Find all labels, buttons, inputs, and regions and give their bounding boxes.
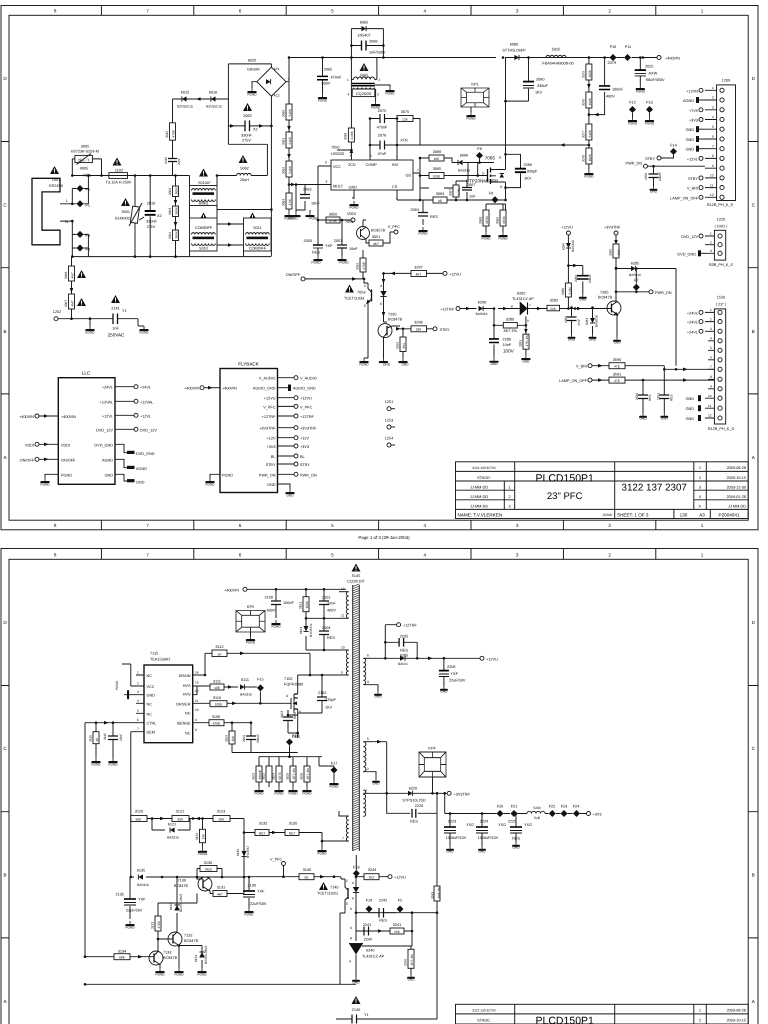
resistor 3106 470E: [193, 715, 234, 731]
svg-text:47E: 47E: [614, 365, 620, 369]
svg-text:22nF: 22nF: [177, 158, 181, 165]
svg-text:GND: GND: [639, 417, 647, 421]
FLYBACK right pins: [253, 376, 317, 489]
ground PGND row: [254, 787, 263, 792]
svg-text:3282: 3282: [550, 299, 558, 303]
svg-text:A: A: [752, 455, 756, 460]
svg-text:22uF/50V: 22uF/50V: [449, 679, 466, 683]
svg-text:2051: 2051: [334, 239, 342, 243]
svg-text:2224: 2224: [480, 820, 488, 824]
svg-text:1: 1: [347, 78, 349, 82]
svg-text:3590: 3590: [613, 358, 621, 362]
sheet1 outer border: [1, 6, 758, 530]
svg-text:BC847B: BC847B: [163, 956, 178, 960]
svg-text:JJ MM-DD: JJ MM-DD: [728, 505, 746, 509]
svg-text:AC2: AC2: [274, 94, 280, 98]
svg-text:EGND: EGND: [85, 331, 95, 335]
svg-text:NC: NC: [185, 732, 191, 736]
svg-text:1KV: 1KV: [325, 706, 333, 710]
svg-text:+12TRF: +12TRF: [300, 415, 315, 419]
svg-text:FQPF2N80: FQPF2N80: [284, 683, 303, 687]
svg-text:2: 2: [699, 1018, 701, 1022]
svg-text:RES: RES: [312, 251, 320, 255]
svg-text:NAME: T.V.VLERKEN: NAME: T.V.VLERKEN: [458, 513, 503, 518]
ground PGND 3068: [481, 232, 490, 237]
svg-text:PGND: PGND: [198, 852, 208, 856]
svg-text:470E: 470E: [362, 262, 366, 269]
svg-text:1: 1: [701, 523, 704, 528]
svg-text:5: 5: [137, 709, 139, 713]
svg-text:3109: 3109: [225, 735, 229, 742]
svg-text:1253: 1253: [385, 419, 393, 423]
wire sense rail: [259, 757, 322, 766]
svg-text:3051: 3051: [372, 235, 380, 239]
svg-text:GND: GND: [686, 397, 695, 401]
svg-text:PGND: PGND: [329, 785, 339, 789]
shunt ref 6240 TL431CZ-AP: [349, 931, 412, 977]
warning 3001: [121, 198, 130, 206]
svg-text:5062: 5062: [240, 167, 248, 171]
svg-text:3130: 3130: [204, 861, 212, 865]
wire K2 row: [356, 913, 412, 941]
fuse F3: [77, 231, 84, 238]
svg-text:PGND: PGND: [244, 913, 254, 917]
svg-text:RES: RES: [648, 394, 652, 401]
svg-text:ON/OFF: ON/OFF: [20, 458, 35, 462]
transformer 5010A RING: [190, 186, 218, 206]
svg-text:250VAC: 250VAC: [108, 333, 125, 338]
svg-text:VDDI: VDDI: [25, 443, 34, 447]
svg-text:BL: BL: [300, 455, 305, 459]
svg-text:G: G: [482, 172, 485, 176]
svg-text:2: 2: [508, 495, 510, 499]
ground PGND Y1: [139, 326, 148, 331]
connector 1200 B12B_PH_K_S: [705, 79, 736, 208]
resistor 3101: [299, 589, 310, 621]
svg-text:13: 13: [195, 681, 199, 685]
resistor 3062: [282, 161, 293, 177]
transistor 7051 BC857B: [345, 220, 386, 241]
svg-text:3120: 3120: [135, 810, 143, 814]
svg-text:6131: 6131: [194, 955, 198, 962]
svg-text:2104: 2104: [322, 626, 330, 630]
svg-text:3280: 3280: [561, 288, 565, 295]
svg-text:RES: RES: [400, 649, 408, 653]
svg-text:F22: F22: [549, 805, 556, 809]
svg-text:6111: 6111: [241, 678, 249, 682]
svg-text:3001: 3001: [122, 210, 130, 214]
svg-text:220pF: 220pF: [325, 698, 336, 702]
svg-text:2067: 2067: [467, 183, 475, 187]
warning 2140: [352, 996, 361, 1004]
svg-text:YXG: YXG: [466, 823, 474, 827]
svg-text:3: 3: [377, 93, 379, 97]
svg-text:3: 3: [516, 553, 519, 558]
svg-text:GND: GND: [374, 695, 382, 699]
svg-text:K: K: [350, 907, 353, 911]
svg-text:22uF/50V: 22uF/50V: [250, 902, 267, 906]
svg-text:82K: 82K: [178, 817, 185, 821]
resistor 3110 100E: [193, 696, 288, 707]
svg-text:F2: F2: [86, 188, 90, 192]
warning 7053: [345, 285, 354, 293]
wire 12vu node: [568, 248, 582, 283]
svg-text:3050: 3050: [329, 213, 337, 217]
svg-text:COMDIFF: COMDIFF: [195, 226, 213, 230]
svg-text:YXF: YXF: [325, 244, 333, 248]
svg-text:6: 6: [137, 718, 139, 722]
svg-text:1nF: 1nF: [469, 195, 476, 199]
FLYBACK left pin PGND: [210, 474, 220, 478]
svg-text:2003-10-15: 2003-10-15: [727, 476, 746, 480]
shunt ref 6282 TL431CZ AP: [498, 292, 544, 323]
svg-text:4M7: 4M7: [71, 272, 75, 278]
svg-text:V_PFC: V_PFC: [263, 405, 275, 409]
ground GND flyback: [285, 489, 294, 494]
LLC right pin +24VL: [115, 386, 134, 388]
svg-text:F21: F21: [511, 805, 518, 809]
svg-text:2: 2: [367, 767, 369, 771]
svg-text:5200: 5200: [533, 806, 540, 810]
svg-text:100nF: 100nF: [283, 601, 294, 605]
ground PGND 2065: [318, 94, 327, 99]
svg-text:3079: 3079: [581, 71, 585, 78]
capacitor 2068 1nF/500V: [351, 40, 386, 55]
resistor 3112 1K: [193, 645, 312, 676]
svg-text:GND: GND: [686, 417, 695, 421]
svg-text:4K7-1%: 4K7-1%: [504, 329, 518, 333]
svg-text:6066: 6066: [460, 154, 468, 158]
ground EGND: [85, 326, 94, 331]
resistor 3068: [479, 204, 506, 232]
resistor 3004: [168, 230, 179, 241]
wire feedback box bottom: [85, 983, 356, 985]
svg-text:59K: 59K: [136, 817, 143, 821]
svg-text:2109: 2109: [242, 735, 246, 742]
svg-text:360K: 360K: [175, 186, 179, 194]
fuse F1: [77, 200, 84, 207]
svg-text:8: 8: [54, 523, 57, 528]
resistor 3130 RES: [197, 861, 222, 877]
ground PGND xfmr pin3: [371, 101, 380, 106]
svg-text:GBU6K: GBU6K: [247, 68, 260, 72]
svg-text:3243: 3243: [431, 892, 435, 899]
svg-text:+12VU: +12VU: [561, 226, 573, 230]
svg-text:GND: GND: [661, 417, 669, 421]
svg-text:3078: 3078: [581, 155, 585, 162]
svg-text:D: D: [3, 76, 7, 81]
svg-text:1KV: 1KV: [524, 177, 532, 181]
svg-text:3122: 3122: [195, 833, 199, 840]
svg-text:2CD: 2CD: [348, 163, 356, 167]
svg-text:2100: 2100: [265, 596, 273, 600]
resistor 3050 470E: [318, 213, 351, 224]
resistor 3008: [64, 266, 75, 281]
svg-text:0E: 0E: [305, 876, 309, 880]
svg-text:2068: 2068: [369, 40, 377, 44]
svg-text:7: 7: [146, 9, 149, 14]
terminal +24VL pin3: [699, 329, 703, 333]
svg-text:6130: 6130: [236, 849, 240, 856]
resistor 3244 2K2: [356, 868, 388, 880]
svg-text:15K: 15K: [394, 930, 401, 934]
resistor 3002: [168, 186, 179, 197]
svg-text:+12VU: +12VU: [300, 397, 312, 401]
svg-text:STBY: STBY: [300, 463, 310, 467]
svg-text:13K: 13K: [202, 833, 206, 840]
svg-text:10E: 10E: [434, 157, 440, 161]
svg-text:3038: 3038: [344, 133, 348, 140]
svg-text:BC847B: BC847B: [598, 296, 613, 300]
svg-text:KP1: KP1: [471, 83, 478, 87]
ground PGND 3069: [498, 232, 507, 237]
svg-text:8: 8: [712, 154, 714, 158]
diode 6101 BYD33J: [299, 622, 313, 642]
svg-text:6020: 6020: [248, 59, 256, 63]
svg-text:GND: GND: [478, 850, 486, 854]
svg-text:PGND: PGND: [197, 973, 207, 977]
svg-text:+12VU: +12VU: [449, 272, 461, 276]
svg-text:BAS316: BAS316: [240, 692, 252, 696]
svg-text:2206: 2206: [447, 665, 455, 669]
svg-text:3140: 3140: [303, 868, 311, 872]
svg-text:6101: 6101: [299, 627, 303, 634]
svg-text:400V: 400V: [606, 95, 615, 99]
warning 2141: [111, 295, 120, 303]
svg-text:1: 1: [699, 466, 701, 470]
svg-text:CS: CS: [392, 185, 398, 189]
svg-text:A3: A3: [699, 513, 705, 518]
wire IC pins: [296, 142, 420, 220]
svg-text:100K: 100K: [305, 600, 309, 608]
svg-text:PGND: PGND: [174, 973, 184, 977]
svg-text:3104: 3104: [272, 773, 276, 780]
svg-text:+12TRF: +12TRF: [403, 624, 418, 628]
svg-text:3002: 3002: [168, 188, 172, 195]
capacitor 2100 100nF 630V: [265, 589, 295, 618]
svg-text:AC1: AC1: [274, 67, 280, 71]
svg-text:8: 8: [54, 9, 57, 14]
varistor 3001: [129, 176, 144, 257]
svg-text:7: 7: [146, 523, 149, 528]
svg-text:7066: 7066: [485, 156, 496, 161]
svg-text:470K: 470K: [157, 920, 161, 928]
capacitor 2101 10nF 400V: [319, 589, 336, 618]
svg-text:470K: 470K: [172, 129, 176, 137]
svg-text:+12TRF: +12TRF: [440, 308, 455, 312]
svg-text:YXF: YXF: [451, 672, 459, 676]
svg-text:K: K: [352, 897, 355, 901]
capacitor 2220 RES: [385, 792, 438, 824]
svg-text:F5: F5: [398, 899, 402, 903]
svg-text:3K9: 3K9: [402, 343, 406, 349]
capacitor 2205 RES: [385, 635, 417, 659]
svg-text:2101: 2101: [322, 596, 330, 600]
svg-text:GND: GND: [579, 298, 587, 302]
svg-text:TCET11033: TCET11033: [344, 297, 364, 301]
capacitor 2284 100nF: [574, 266, 592, 295]
svg-text:2: 2: [710, 317, 712, 321]
svg-text:+400VIN: +400VIN: [19, 415, 34, 419]
svg-text:BZV55C15: BZV55C15: [177, 105, 193, 109]
resistor 3123 59K: [213, 810, 230, 822]
terminal +3V3TRF s2: [447, 791, 451, 795]
svg-text:F8: F8: [477, 147, 481, 151]
resistor 3121 82K: [172, 810, 189, 822]
svg-text:3060: 3060: [282, 110, 286, 117]
svg-text:3062: 3062: [282, 167, 286, 174]
svg-text:GND: GND: [589, 338, 597, 342]
svg-text:PGND: PGND: [311, 261, 321, 265]
svg-text:BL: BL: [271, 455, 276, 459]
capacitor 2250 100nF: [644, 166, 662, 186]
svg-text:7132: 7132: [184, 934, 192, 938]
svg-text:STBY: STBY: [645, 157, 655, 161]
resistor 3038: [344, 128, 355, 142]
svg-text:E: E: [364, 304, 366, 308]
svg-text:ON/OFF: ON/OFF: [61, 458, 76, 462]
svg-text:RES: RES: [512, 837, 520, 841]
svg-text:4M7: 4M7: [71, 300, 75, 306]
svg-text:PGND: PGND: [481, 237, 491, 241]
svg-text:1102: 1102: [115, 169, 123, 173]
svg-text:7102: 7102: [284, 677, 292, 681]
svg-text:100V: 100V: [503, 349, 515, 354]
svg-text:STTH5L06FP: STTH5L06FP: [502, 49, 526, 53]
svg-text:V_BRI: V_BRI: [576, 365, 587, 369]
svg-text:3: 3: [699, 485, 701, 489]
spark gap KP5: [236, 605, 265, 632]
capacitor 2282 47nF: [564, 308, 581, 335]
svg-text:10nF: 10nF: [503, 343, 512, 347]
svg-text:C: C: [752, 746, 756, 751]
wire feedback mid rail: [131, 819, 244, 878]
svg-text:PGND: PGND: [40, 483, 50, 487]
svg-text:STBY: STBY: [688, 177, 698, 181]
transformer 5145 primary winding 10-9: [298, 645, 349, 675]
wire L split: [60, 176, 88, 204]
svg-text:513K: 513K: [588, 129, 592, 137]
svg-text:3285: 3285: [609, 249, 613, 256]
diode 6130 BYD33J: [236, 833, 250, 877]
svg-text:C: C: [752, 203, 756, 208]
svg-text:100E: 100E: [215, 703, 222, 707]
svg-text:A: A: [3, 999, 7, 1004]
svg-text:2063: 2063: [303, 188, 311, 192]
optocoupler 7140 led: [352, 875, 359, 912]
svg-text:470E: 470E: [213, 722, 220, 726]
svg-text:10: 10: [341, 645, 345, 649]
optocoupler 7053 led: [380, 273, 387, 316]
svg-text:10: 10: [195, 708, 199, 712]
sheet1 row letters: [3, 76, 755, 460]
capacitor 2063 10nF: [296, 185, 320, 211]
svg-text:13K: 13K: [416, 328, 423, 332]
diode 6111 BAS316: [240, 678, 257, 696]
svg-text:6121: 6121: [168, 823, 176, 827]
LLC right pin AGND: [115, 459, 127, 467]
svg-text:+12VU: +12VU: [264, 397, 276, 401]
svg-text:PGND: PGND: [246, 641, 256, 645]
svg-text:ISENSE: ISENSE: [177, 722, 191, 726]
resistor 3063: [282, 193, 293, 209]
svg-text:A: A: [752, 999, 756, 1004]
svg-text:7133: 7133: [163, 951, 171, 955]
svg-text:1000uF/10V: 1000uF/10V: [478, 836, 499, 840]
svg-text:7140: 7140: [330, 886, 338, 890]
svg-text:F19: F19: [366, 899, 373, 903]
svg-text:+12VAL: +12VAL: [100, 400, 113, 404]
zener 6283 BAS016: [585, 308, 599, 335]
svg-text:7: 7: [146, 553, 149, 558]
svg-text:DVD_12V: DVD_12V: [96, 428, 113, 432]
resistor 3131 4K7: [210, 877, 244, 897]
resistor 3282 22K: [544, 299, 600, 311]
svg-text:5010A*: 5010A*: [198, 181, 211, 185]
resistor 3052: [356, 250, 367, 279]
svg-text:DVD_GND: DVD_GND: [94, 443, 113, 447]
svg-text:9: 9: [195, 718, 197, 722]
svg-text:3131: 3131: [217, 886, 225, 890]
sheet2 row letters: [3, 620, 755, 1004]
svg-text:5145: 5145: [352, 574, 360, 578]
svg-text:6284: 6284: [561, 243, 565, 250]
svg-text:2.2M: 2.2M: [568, 287, 572, 294]
svg-text:LAMP_ON_OFF: LAMP_ON_OFF: [559, 379, 588, 383]
svg-text:4K7: 4K7: [617, 250, 621, 256]
svg-text:2: 2: [379, 78, 381, 82]
svg-text:6: 6: [712, 135, 714, 139]
terminal +12TRF s2: [397, 623, 401, 627]
svg-text:B57236-S259-M: B57236-S259-M: [71, 150, 99, 154]
svg-text:275V: 275V: [242, 139, 251, 143]
LLC left pin VDDI: [35, 442, 39, 446]
svg-text:STBY: STBY: [440, 328, 450, 332]
svg-text:R: R: [350, 937, 353, 941]
svg-text:7: 7: [712, 144, 714, 148]
svg-text:A: A: [3, 455, 7, 460]
capacitor 2135 YXF 22uF/50V: [116, 877, 147, 919]
svg-text:RES: RES: [205, 867, 212, 871]
svg-text:C: C: [3, 203, 7, 208]
svg-text:3068: 3068: [479, 217, 483, 224]
svg-text:2015: 2015: [164, 157, 168, 164]
svg-text:2003-12-30: 2003-12-30: [727, 485, 746, 489]
svg-text:V_AUDIO: V_AUDIO: [259, 377, 276, 381]
svg-text:47nF: 47nF: [378, 152, 387, 156]
svg-text:+3V3TRF: +3V3TRF: [604, 226, 621, 230]
terminal +12VN pin1: [699, 88, 703, 92]
svg-text:RE7: RE7: [289, 831, 295, 835]
svg-text:+12VN: +12VN: [686, 89, 698, 93]
svg-text:+12VL: +12VL: [102, 414, 113, 418]
svg-text:3122 133 3270X: 3122 133 3270X: [472, 1009, 496, 1013]
svg-text:BAS316: BAS316: [571, 240, 575, 252]
svg-text:RING: RING: [199, 202, 209, 206]
bridge 6020 GBU6K: [247, 67, 290, 98]
ground PGND sense: [584, 170, 593, 175]
wire AC risers: [267, 64, 271, 256]
svg-text:4: 4: [348, 93, 350, 97]
resistor 3296 13K: [400, 321, 433, 332]
diode 6220 STPS10L25D: [368, 787, 447, 803]
wire CTRL rail junctions: [95, 721, 98, 724]
svg-text:6: 6: [710, 356, 712, 360]
svg-text:3110: 3110: [213, 696, 221, 700]
resistor 3064 0E: [433, 192, 447, 203]
resistor 3295: [396, 328, 407, 359]
svg-text:TCET1102G: TCET1102G: [317, 892, 338, 896]
